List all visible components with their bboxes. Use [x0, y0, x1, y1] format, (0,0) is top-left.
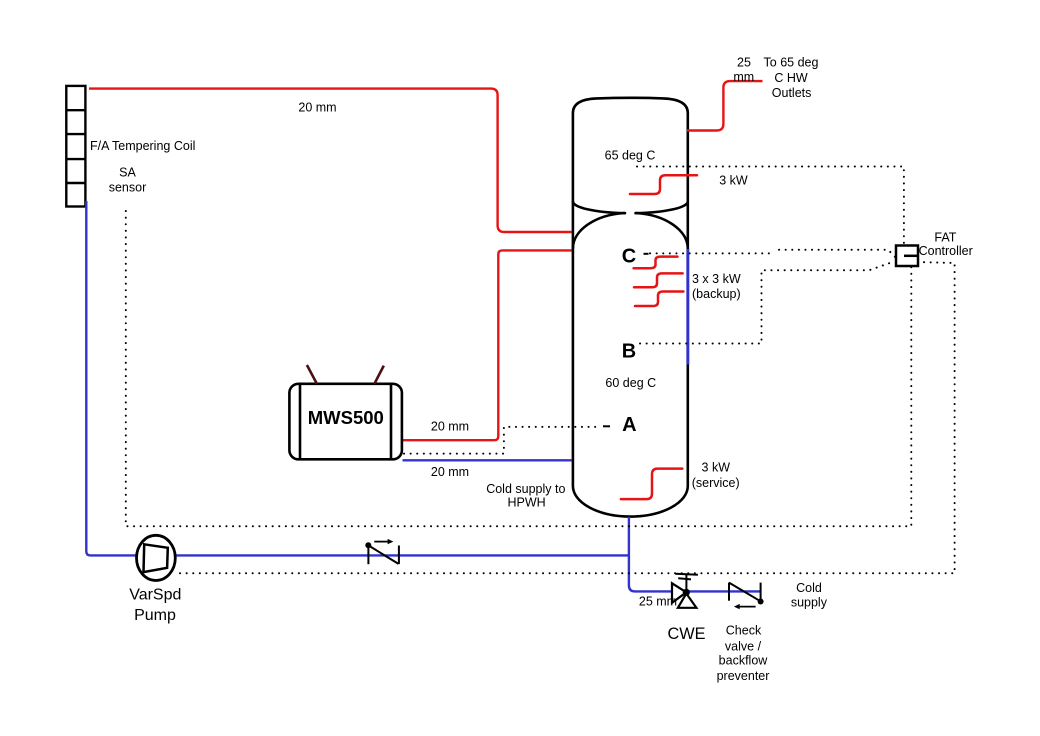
svg-text:A: A [622, 414, 636, 436]
flow arrow (right) above check valve [374, 541, 389, 543]
flow arrow (left) under check valve [739, 606, 756, 608]
wire: cold pipe coil down to pump line [86, 201, 630, 555]
heating element backup 3 [635, 292, 683, 307]
svg-text:Outlets: Outlets [772, 86, 812, 100]
control line: SA sensor to FAT controller [126, 211, 912, 526]
dash at sensor C [644, 253, 649, 255]
svg-text:20 mm: 20 mm [431, 420, 469, 434]
control line: 65degC element to FAT controller [637, 167, 904, 246]
svg-text:Check: Check [726, 624, 762, 638]
check valve on pump discharge [368, 545, 399, 564]
tank divider: dome top of 60 deg C section [573, 213, 688, 249]
control line: sensor B to FAT controller [640, 262, 894, 344]
svg-text:supply: supply [791, 596, 828, 610]
CWE valve ball [683, 589, 690, 596]
svg-text:HPWH: HPWH [507, 496, 545, 510]
svg-text:C HW: C HW [774, 71, 808, 85]
svg-text:(backup): (backup) [692, 287, 741, 301]
svg-text:backflow: backflow [719, 654, 769, 668]
svg-text:Cold supply to: Cold supply to [486, 482, 565, 496]
wire: hot pipe MWS500 to tank [403, 250, 572, 440]
svg-text:preventer: preventer [717, 669, 770, 683]
svg-text:Cold: Cold [796, 581, 822, 595]
svg-text:MWS500: MWS500 [308, 407, 384, 428]
wire: cold pipe MWS500 to tank [403, 459, 572, 461]
svg-text:SA: SA [119, 166, 136, 180]
CWE tempering valve [672, 583, 696, 608]
MWS500 heat pump unit [289, 384, 402, 460]
svg-text:To 65 deg: To 65 deg [764, 55, 819, 69]
check valve / backflow preventer on cold supply [729, 583, 761, 602]
heating element 3 kW (65 deg C section) [630, 175, 697, 194]
tank divider: bottom of 65 deg C section [573, 202, 688, 214]
svg-text:valve /: valve / [725, 640, 762, 654]
svg-text:25 mm: 25 mm [639, 595, 677, 609]
heating element backup 2 [634, 273, 683, 287]
heating element 3 kW service [621, 469, 682, 500]
F/A tempering coil [66, 86, 85, 207]
svg-text:F/A Tempering Coil: F/A Tempering Coil [90, 139, 195, 153]
FAT controller box [896, 246, 918, 267]
wire: cold dip line inside tank right wall [686, 249, 689, 365]
svg-text:20 mm: 20 mm [298, 101, 336, 115]
svg-text:(service): (service) [692, 476, 740, 490]
svg-text:Pump: Pump [134, 607, 176, 624]
svg-text:60 deg C: 60 deg C [605, 376, 656, 390]
wire: tank outlet to HW outlets (25 mm) [687, 81, 763, 130]
svg-text:65 deg C: 65 deg C [605, 149, 656, 163]
antenna left on MWS500 [307, 365, 317, 384]
svg-text:Controller: Controller [919, 244, 973, 258]
svg-text:3 x 3 kW: 3 x 3 kW [692, 272, 741, 286]
VarSpd pump [137, 535, 176, 580]
control line: MWS500 to sensor A [404, 427, 600, 454]
svg-text:20 mm: 20 mm [431, 465, 469, 479]
control line: sensor C to FAT controller [650, 252, 770, 254]
heating element backup 1 [634, 257, 678, 269]
svg-text:B: B [622, 341, 636, 363]
dash at sensor A [603, 425, 610, 427]
storage tank shell [573, 98, 688, 517]
svg-text:3 kW: 3 kW [702, 460, 731, 474]
svg-text:FAT: FAT [934, 231, 956, 245]
CWE valve stem and actuator bars [685, 574, 687, 592]
svg-text:sensor: sensor [109, 181, 147, 195]
svg-text:25: 25 [737, 55, 751, 69]
control line: pump / CWE to FAT controller [180, 262, 955, 573]
wire: cold pipe tank bottom to CWE and cold supply [629, 517, 761, 592]
svg-text:CWE: CWE [668, 625, 706, 643]
svg-text:3 kW: 3 kW [719, 174, 748, 188]
wire: hot pipe from coil to tank (20 mm) [89, 89, 572, 232]
svg-text:mm: mm [733, 70, 754, 84]
svg-text:C: C [622, 246, 636, 268]
antenna right on MWS500 [374, 366, 383, 384]
svg-text:VarSpd: VarSpd [129, 587, 181, 604]
